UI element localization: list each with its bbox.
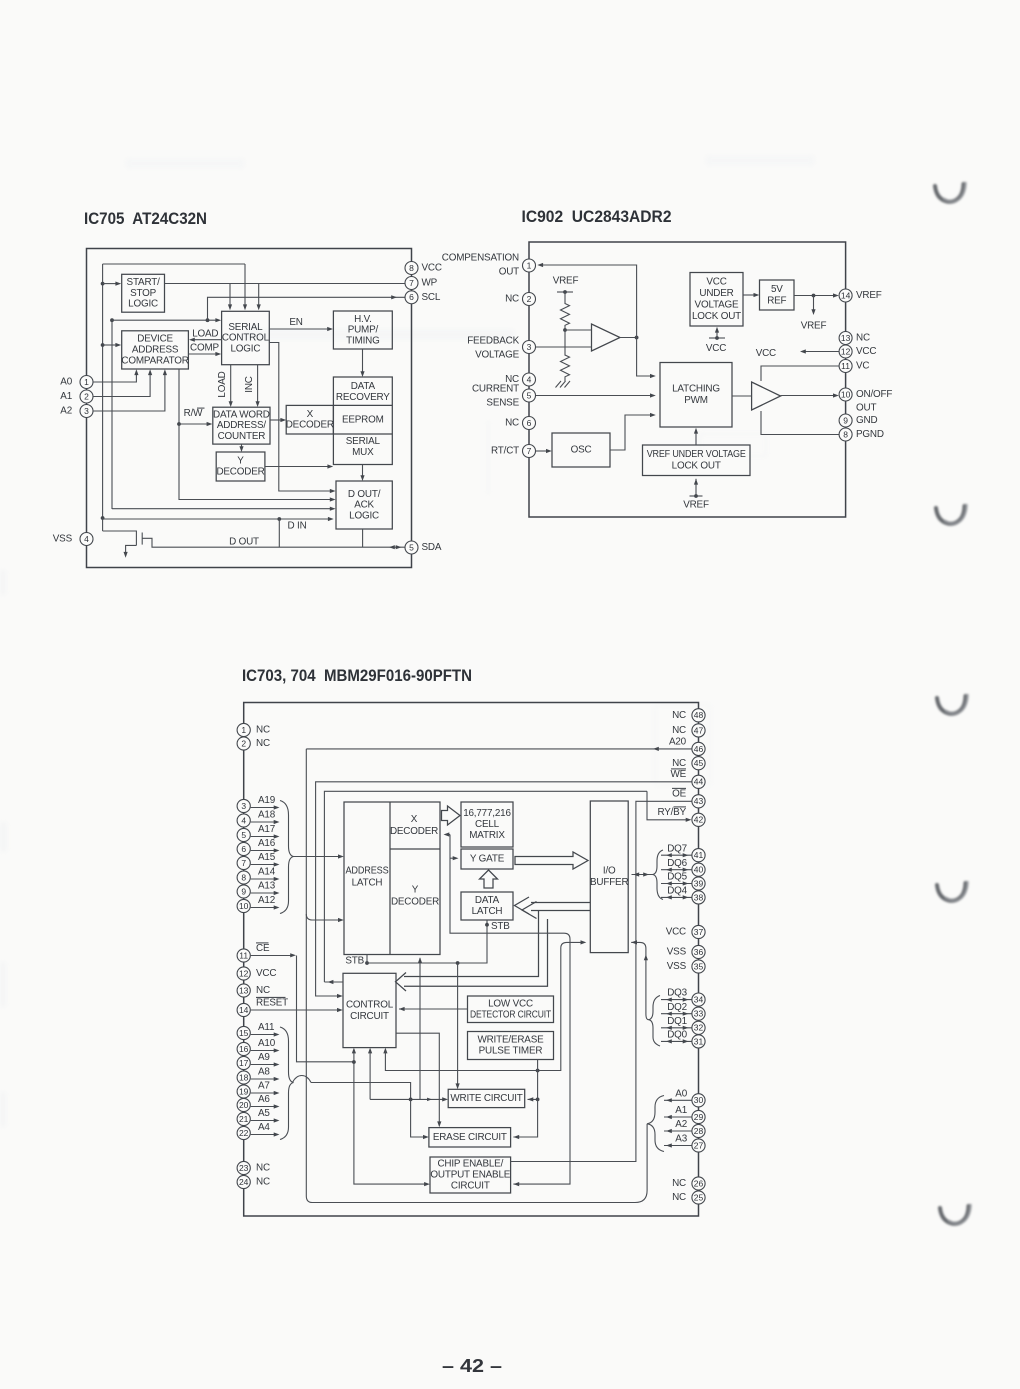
svg-text:A0: A0	[60, 377, 72, 388]
svg-text:D IN: D IN	[287, 521, 306, 532]
svg-text:D OUT: D OUT	[229, 537, 259, 548]
svg-text:WRITE/ERASE: WRITE/ERASE	[477, 1035, 544, 1046]
svg-text:43: 43	[694, 796, 704, 806]
svg-text:11: 11	[841, 361, 850, 371]
svg-text:– 42 –: – 42 –	[442, 1356, 502, 1376]
svg-text:7: 7	[409, 278, 414, 288]
svg-text:CHIP ENABLE/: CHIP ENABLE/	[437, 1159, 503, 1170]
svg-text:42: 42	[694, 815, 704, 825]
svg-text:10: 10	[239, 901, 249, 911]
svg-text:VCC: VCC	[422, 263, 442, 274]
svg-text:SCL: SCL	[422, 292, 441, 303]
svg-text:IC705 AT24C32N: IC705 AT24C32N	[84, 209, 207, 228]
svg-text:3: 3	[527, 342, 532, 352]
svg-text:LOGIC: LOGIC	[128, 299, 158, 310]
svg-text:ADDRESS: ADDRESS	[346, 866, 390, 877]
svg-text:NC: NC	[672, 1178, 686, 1189]
svg-text:A0: A0	[675, 1088, 687, 1099]
svg-text:A1: A1	[675, 1105, 687, 1116]
svg-text:28: 28	[694, 1126, 704, 1136]
svg-text:7: 7	[241, 858, 246, 868]
svg-text:44: 44	[694, 777, 704, 787]
svg-text:NC: NC	[505, 294, 519, 305]
svg-text:5: 5	[409, 542, 414, 552]
svg-text:DATA: DATA	[475, 895, 500, 906]
svg-text:1: 1	[241, 725, 246, 735]
svg-text:VREF: VREF	[683, 500, 709, 511]
svg-text:VSS: VSS	[667, 961, 687, 972]
svg-text:INC: INC	[244, 376, 255, 393]
svg-text:10: 10	[841, 389, 851, 399]
svg-text:VCC: VCC	[856, 346, 876, 357]
svg-text:23: 23	[239, 1163, 249, 1173]
svg-text:8: 8	[843, 429, 848, 439]
svg-text:LATCH: LATCH	[352, 878, 383, 889]
svg-text:DQ1: DQ1	[667, 1016, 687, 1027]
svg-text:11: 11	[239, 950, 248, 960]
svg-text:X: X	[307, 409, 314, 420]
svg-text:A14: A14	[258, 867, 276, 878]
svg-text:VC: VC	[856, 361, 869, 372]
svg-text:14: 14	[841, 290, 851, 300]
svg-text:7: 7	[527, 446, 532, 456]
svg-text:12: 12	[239, 968, 249, 978]
svg-text:COUNTER: COUNTER	[218, 431, 266, 442]
svg-text:16,777,216: 16,777,216	[463, 808, 511, 819]
svg-text:OUTPUT ENABLE: OUTPUT ENABLE	[430, 1170, 510, 1181]
svg-text:DECODER: DECODER	[216, 467, 264, 478]
svg-text:ADDRESS/: ADDRESS/	[217, 420, 266, 431]
svg-text:WP: WP	[422, 278, 438, 289]
svg-text:A12: A12	[258, 895, 275, 906]
svg-text:D OUT/: D OUT/	[348, 489, 381, 500]
svg-text:24: 24	[239, 1177, 249, 1187]
svg-text:4: 4	[241, 815, 246, 825]
svg-text:OSC: OSC	[571, 445, 592, 456]
svg-text:LOGIC: LOGIC	[349, 510, 379, 521]
svg-text:ACK: ACK	[354, 500, 374, 511]
svg-text:LOAD: LOAD	[192, 329, 218, 340]
svg-text:13: 13	[239, 985, 249, 995]
svg-text:Y: Y	[412, 885, 419, 896]
svg-text:VREF UNDER VOLTAGE: VREF UNDER VOLTAGE	[647, 449, 747, 460]
svg-text:NC: NC	[672, 710, 686, 721]
svg-text:8: 8	[409, 263, 414, 273]
svg-text:NC: NC	[256, 1177, 270, 1188]
svg-text:5: 5	[241, 830, 246, 840]
svg-text:SDA: SDA	[422, 542, 442, 553]
svg-text:1: 1	[527, 260, 532, 270]
svg-text:RECOVERY: RECOVERY	[336, 392, 390, 403]
svg-text:16: 16	[239, 1044, 249, 1054]
svg-text:X: X	[411, 814, 418, 825]
svg-text:STB: STB	[345, 956, 364, 967]
svg-text:VCC: VCC	[666, 927, 686, 938]
svg-text:NC: NC	[672, 1192, 686, 1203]
svg-text:A15: A15	[258, 852, 276, 863]
svg-text:15: 15	[239, 1028, 249, 1038]
svg-text:VOLTAGE: VOLTAGE	[475, 350, 520, 361]
svg-text:IC703, 704 MBM29F016-90PFTN: IC703, 704 MBM29F016-90PFTN	[242, 666, 472, 685]
svg-text:REF: REF	[767, 295, 786, 306]
svg-text:48: 48	[694, 710, 704, 720]
svg-text:GND: GND	[856, 415, 877, 426]
svg-text:36: 36	[694, 947, 704, 957]
svg-text:2: 2	[84, 391, 89, 401]
svg-text:13: 13	[841, 333, 851, 343]
svg-text:MATRIX: MATRIX	[469, 830, 505, 841]
svg-text:OUT: OUT	[856, 403, 876, 414]
svg-text:39: 39	[694, 878, 704, 888]
svg-text:34: 34	[694, 994, 704, 1004]
svg-text:A7: A7	[258, 1081, 270, 1092]
svg-text:A1: A1	[60, 391, 72, 402]
svg-text:PULSE TIMER: PULSE TIMER	[479, 1046, 543, 1057]
svg-text:A18: A18	[258, 810, 276, 821]
svg-text:COMP: COMP	[190, 343, 219, 354]
svg-text:EEPROM: EEPROM	[342, 415, 384, 426]
svg-text:A10: A10	[258, 1038, 276, 1049]
svg-text:VCC: VCC	[706, 343, 726, 354]
svg-text:MUX: MUX	[352, 447, 374, 458]
svg-text:NC: NC	[856, 333, 870, 344]
svg-text:A20: A20	[669, 737, 687, 748]
svg-text:33: 33	[694, 1009, 704, 1019]
svg-text:A2: A2	[675, 1119, 687, 1130]
svg-text:A17: A17	[258, 824, 275, 835]
svg-text:A6: A6	[258, 1094, 270, 1105]
svg-text:STB: STB	[491, 921, 510, 932]
svg-text:LOAD: LOAD	[217, 371, 228, 397]
svg-text:DQ4: DQ4	[667, 886, 687, 897]
svg-text:38: 38	[694, 892, 704, 902]
svg-text:SERIAL: SERIAL	[346, 436, 381, 447]
svg-text:WRITE CIRCUIT: WRITE CIRCUIT	[450, 1093, 522, 1104]
svg-text:ON/OFF: ON/OFF	[856, 389, 892, 400]
svg-text:COMPENSATION: COMPENSATION	[442, 253, 519, 264]
svg-text:RT/CT: RT/CT	[491, 446, 519, 457]
svg-text:VCC: VCC	[756, 348, 776, 359]
svg-text:LOCK OUT: LOCK OUT	[672, 461, 721, 472]
svg-text:DQ7: DQ7	[667, 843, 687, 854]
svg-text:R/W: R/W	[184, 408, 204, 419]
svg-text:DEVICE: DEVICE	[137, 334, 173, 345]
svg-text:ADDRESS: ADDRESS	[132, 345, 179, 356]
svg-text:27: 27	[694, 1140, 704, 1150]
svg-text:A2: A2	[60, 406, 72, 417]
svg-text:1: 1	[84, 377, 89, 387]
svg-text:I/O: I/O	[603, 866, 616, 877]
svg-text:PGND: PGND	[856, 429, 884, 440]
svg-text:VOLTAGE: VOLTAGE	[695, 300, 740, 311]
svg-text:OE: OE	[672, 789, 687, 800]
svg-text:6: 6	[241, 844, 246, 854]
svg-text:OUT: OUT	[499, 267, 519, 278]
svg-text:17: 17	[239, 1058, 249, 1068]
svg-text:CONTROL: CONTROL	[346, 999, 394, 1010]
svg-text:A11: A11	[258, 1022, 275, 1033]
svg-text:A16: A16	[258, 838, 276, 849]
svg-text:A19: A19	[258, 795, 276, 806]
svg-text:CIRCUIT: CIRCUIT	[451, 1181, 490, 1192]
svg-text:LATCHING: LATCHING	[672, 384, 720, 395]
svg-text:9: 9	[843, 415, 848, 425]
svg-text:DECODER: DECODER	[390, 826, 438, 837]
svg-text:NC: NC	[256, 738, 270, 749]
svg-text:WE: WE	[670, 769, 686, 780]
svg-text:VSS: VSS	[53, 534, 73, 545]
svg-text:A5: A5	[258, 1108, 270, 1119]
svg-text:Y GATE: Y GATE	[470, 854, 505, 865]
svg-text:32: 32	[694, 1023, 704, 1033]
svg-text:CURRENT: CURRENT	[472, 384, 519, 395]
svg-text:SERIAL: SERIAL	[228, 322, 263, 333]
svg-text:47: 47	[694, 725, 704, 735]
svg-text:45: 45	[694, 758, 704, 768]
svg-text:ERASE CIRCUIT: ERASE CIRCUIT	[433, 1132, 507, 1143]
svg-text:DECODER: DECODER	[286, 420, 334, 431]
svg-text:25: 25	[694, 1192, 704, 1202]
svg-text:Y: Y	[237, 456, 244, 467]
svg-text:TIMING: TIMING	[346, 335, 379, 346]
svg-text:DQ2: DQ2	[667, 1002, 687, 1013]
svg-text:18: 18	[239, 1072, 249, 1082]
svg-text:H.V.: H.V.	[354, 314, 372, 325]
svg-text:4: 4	[84, 534, 89, 544]
svg-text:46: 46	[694, 744, 704, 754]
svg-text:NC: NC	[256, 985, 270, 996]
svg-text:DQ6: DQ6	[667, 858, 687, 869]
svg-text:LOGIC: LOGIC	[230, 343, 260, 354]
svg-text:26: 26	[694, 1178, 704, 1188]
svg-text:A9: A9	[258, 1052, 270, 1063]
svg-text:EN: EN	[289, 317, 302, 328]
svg-text:FEEDBACK: FEEDBACK	[467, 336, 519, 347]
svg-text:A13: A13	[258, 881, 276, 892]
svg-text:VREF: VREF	[553, 276, 579, 287]
svg-text:A4: A4	[258, 1122, 270, 1133]
svg-text:20: 20	[239, 1100, 249, 1110]
svg-text:CONTROL: CONTROL	[222, 333, 270, 344]
svg-text:NC: NC	[256, 1163, 270, 1174]
svg-text:19: 19	[239, 1086, 249, 1096]
svg-text:2: 2	[241, 738, 246, 748]
svg-text:DECODER: DECODER	[391, 897, 439, 908]
svg-text:5: 5	[527, 390, 532, 400]
svg-text:29: 29	[694, 1112, 704, 1122]
svg-text:3: 3	[84, 406, 89, 416]
svg-text:CELL: CELL	[475, 819, 500, 830]
svg-text:CE: CE	[256, 943, 270, 954]
svg-text:A3: A3	[675, 1134, 687, 1145]
svg-text:PWM: PWM	[684, 395, 708, 406]
svg-text:21: 21	[239, 1114, 249, 1124]
svg-text:DETECTOR CIRCUIT: DETECTOR CIRCUIT	[470, 1009, 551, 1020]
svg-text:LOCK OUT: LOCK OUT	[692, 311, 741, 322]
svg-text:NC: NC	[672, 758, 686, 769]
svg-text:LOW VCC: LOW VCC	[488, 998, 533, 1009]
svg-text:DQ5: DQ5	[667, 872, 687, 883]
svg-text:IC902 UC2843ADR2: IC902 UC2843ADR2	[522, 207, 672, 226]
svg-text:DATA WORD: DATA WORD	[213, 409, 270, 420]
svg-text:BUFFER: BUFFER	[590, 877, 628, 888]
svg-text:NC: NC	[672, 725, 686, 736]
svg-text:START/: START/	[127, 277, 161, 288]
svg-text:6: 6	[409, 292, 414, 302]
svg-text:UNDER: UNDER	[699, 288, 733, 299]
svg-text:4: 4	[527, 374, 532, 384]
svg-text:14: 14	[239, 1005, 249, 1015]
svg-text:6: 6	[527, 418, 532, 428]
svg-text:5V: 5V	[771, 284, 783, 295]
svg-text:3: 3	[241, 801, 246, 811]
svg-text:COMPARATOR: COMPARATOR	[121, 355, 188, 366]
svg-text:VREF: VREF	[856, 290, 882, 301]
svg-text:SENSE: SENSE	[486, 398, 519, 409]
svg-text:DQ3: DQ3	[667, 988, 687, 999]
svg-text:30: 30	[694, 1095, 704, 1105]
svg-text:12: 12	[841, 346, 851, 356]
svg-text:35: 35	[694, 961, 704, 971]
svg-text:9: 9	[241, 886, 246, 896]
svg-text:37: 37	[694, 927, 704, 937]
svg-text:31: 31	[694, 1036, 704, 1046]
svg-text:2: 2	[527, 294, 532, 304]
svg-text:STOP: STOP	[130, 288, 157, 299]
svg-text:40: 40	[694, 865, 704, 875]
svg-text:CIRCUIT: CIRCUIT	[350, 1011, 389, 1022]
svg-text:8: 8	[241, 872, 246, 882]
svg-text:22: 22	[239, 1128, 249, 1138]
svg-text:RESET: RESET	[256, 998, 288, 1009]
svg-text:DQ0: DQ0	[667, 1030, 687, 1041]
svg-text:VCC: VCC	[706, 277, 726, 288]
svg-text:DATA: DATA	[351, 381, 376, 392]
svg-text:RY/BY: RY/BY	[657, 807, 686, 818]
svg-text:NC: NC	[256, 725, 270, 736]
svg-text:A8: A8	[258, 1067, 270, 1078]
svg-text:41: 41	[694, 850, 704, 860]
svg-text:VREF: VREF	[801, 321, 827, 332]
svg-text:PUMP/: PUMP/	[348, 325, 379, 336]
svg-text:NC: NC	[505, 418, 519, 429]
svg-text:VSS: VSS	[667, 947, 687, 958]
svg-text:VCC: VCC	[256, 968, 276, 979]
svg-text:LATCH: LATCH	[472, 906, 503, 917]
